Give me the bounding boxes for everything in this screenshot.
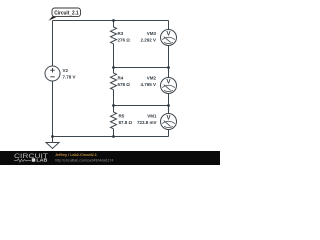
node junction dots — [51, 19, 170, 138]
svg-text:578 Ω: 578 Ω — [118, 82, 131, 87]
resistor R3 — [111, 21, 117, 68]
svg-text:87.8 Ω: 87.8 Ω — [119, 120, 133, 125]
wire left rail lower — [52, 81, 54, 137]
wire row2 — [114, 67, 169, 69]
resistor R5 — [111, 106, 117, 137]
label V2 value — [63, 68, 76, 80]
svg-text:Circuit_2.1: Circuit_2.1 — [54, 11, 79, 17]
svg-text:R4: R4 — [118, 76, 124, 81]
voltmeter VM1 — [161, 106, 177, 137]
svg-text:Jeffrey / Lab2-Circuit2.1: Jeffrey / Lab2-Circuit2.1 — [55, 153, 97, 157]
svg-text:V2: V2 — [63, 68, 69, 73]
CircuitLab logo — [14, 154, 48, 163]
svg-text:276 Ω: 276 Ω — [118, 38, 131, 43]
resistor R4 — [111, 68, 117, 106]
voltage source V2 — [45, 66, 60, 81]
wire top rail — [53, 20, 169, 22]
svg-text:R5: R5 — [119, 114, 125, 119]
footer bar — [0, 151, 220, 165]
svg-text:VM1: VM1 — [147, 114, 157, 119]
svg-text:7.78 V: 7.78 V — [63, 75, 76, 80]
ground — [46, 137, 59, 149]
schematic name label Circuit_2.1 — [49, 8, 81, 21]
voltmeter VM3 — [161, 21, 177, 68]
svg-text:VM3: VM3 — [147, 31, 157, 36]
svg-text:http://circuitlab.com/cw34904d: http://circuitlab.com/cw34904da6174 — [55, 158, 113, 162]
wire row3 — [114, 105, 169, 107]
svg-text:R3: R3 — [118, 31, 124, 36]
svg-text:V: V — [166, 116, 170, 122]
wire bottom rail — [53, 136, 169, 138]
svg-text:2.292 V: 2.292 V — [140, 38, 156, 43]
svg-text:VM2: VM2 — [147, 76, 157, 81]
svg-text:V: V — [166, 32, 170, 38]
svg-text:V: V — [166, 80, 170, 86]
svg-text:723.8 mV: 723.8 mV — [137, 120, 157, 125]
wire left rail upper — [52, 21, 54, 67]
voltmeter VM2 — [161, 68, 177, 106]
svg-text:4.765 V: 4.765 V — [140, 82, 156, 87]
svg-text:LAB: LAB — [36, 158, 48, 163]
